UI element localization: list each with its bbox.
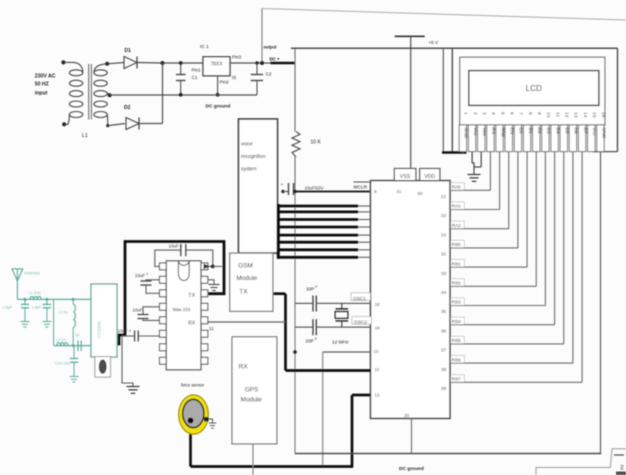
- svg-text:9: 9: [536, 112, 542, 115]
- svg-text:CC2500: CC2500: [97, 321, 102, 338]
- svg-text:RB0: RB0: [452, 242, 461, 247]
- svg-text:RA2: RA2: [452, 223, 461, 228]
- svg-text:10uF +: 10uF +: [169, 244, 183, 249]
- svg-text:L1 2nH: L1 2nH: [29, 291, 42, 295]
- svg-text:33P: 33P: [306, 287, 314, 292]
- svg-text:12 MHz: 12 MHz: [332, 340, 349, 346]
- svg-text:33P: 33P: [306, 339, 314, 344]
- svg-text:Max 232: Max 232: [173, 307, 191, 312]
- svg-text:RB1: RB1: [452, 261, 461, 266]
- svg-text:34: 34: [441, 290, 447, 296]
- svg-text:14: 14: [582, 112, 588, 118]
- svg-text:VDD: VDD: [424, 174, 435, 180]
- svg-text:32: 32: [441, 252, 447, 258]
- svg-text:8: 8: [527, 112, 533, 115]
- svg-text:10uF +: 10uF +: [118, 329, 132, 334]
- svg-text:7: 7: [518, 112, 524, 115]
- svg-text:22: 22: [441, 213, 447, 219]
- svg-text:RA1: RA1: [452, 204, 461, 209]
- svg-text:D3: D3: [545, 128, 551, 135]
- svg-text:LCD: LCD: [526, 84, 542, 93]
- svg-text:D6: D6: [573, 128, 579, 135]
- svg-text:1: 1: [463, 112, 469, 115]
- svg-text:D0: D0: [518, 128, 524, 135]
- svg-text:18: 18: [375, 302, 380, 307]
- svg-text:10: 10: [545, 112, 551, 118]
- svg-text:D2: D2: [124, 105, 131, 111]
- svg-text:Pin1: Pin1: [192, 68, 202, 73]
- svg-text:37: 37: [441, 348, 447, 354]
- svg-text:38: 38: [441, 367, 447, 373]
- svg-text:10: 10: [373, 349, 378, 354]
- svg-text:10uF: 10uF: [133, 307, 143, 312]
- svg-text:force sensor: force sensor: [181, 383, 205, 388]
- svg-text:13: 13: [573, 112, 579, 118]
- svg-text:EN: EN: [509, 128, 515, 135]
- svg-text:D1: D1: [527, 128, 533, 135]
- svg-text:+5 V: +5 V: [429, 40, 440, 45]
- svg-text:MCLR: MCLR: [354, 184, 368, 190]
- svg-text:Vcc: Vcc: [591, 128, 597, 137]
- svg-text:50 HZ: 50 HZ: [35, 81, 50, 87]
- svg-text:Module: Module: [236, 275, 257, 282]
- svg-text:OSC1: OSC1: [353, 296, 366, 302]
- svg-text:+: +: [281, 182, 284, 187]
- svg-text:12: 12: [374, 392, 380, 397]
- svg-text:system: system: [241, 167, 257, 173]
- svg-text:D5: D5: [564, 128, 570, 135]
- svg-text:Pin3: Pin3: [232, 55, 242, 60]
- svg-text:33: 33: [441, 271, 447, 277]
- svg-text:DC ground: DC ground: [399, 466, 424, 472]
- svg-text:output: output: [264, 45, 278, 50]
- svg-text:Module: Module: [241, 397, 262, 404]
- svg-text:21: 21: [441, 194, 447, 200]
- svg-text:C1: C1: [192, 75, 198, 80]
- svg-text:RX: RX: [239, 364, 249, 371]
- svg-text:0): 0): [232, 75, 237, 80]
- svg-text:19: 19: [375, 326, 380, 331]
- svg-text:40: 40: [417, 191, 423, 197]
- svg-text:RX: RX: [188, 321, 196, 327]
- svg-text:39: 39: [441, 386, 447, 392]
- svg-text:RB4: RB4: [452, 319, 461, 324]
- svg-text:L2 5n: L2 5n: [59, 311, 69, 315]
- svg-text:TX: TX: [239, 289, 248, 296]
- svg-text:3: 3: [481, 112, 487, 115]
- svg-text:1.5pF: 1.5pF: [3, 306, 13, 310]
- svg-text:recognition: recognition: [241, 154, 266, 160]
- svg-text:9: 9: [374, 189, 377, 195]
- svg-text:D1: D1: [125, 48, 132, 54]
- svg-text:12: 12: [563, 112, 569, 118]
- svg-text:23: 23: [441, 232, 447, 238]
- svg-text:RB6: RB6: [452, 357, 461, 362]
- svg-text:Antenna: Antenna: [24, 271, 40, 276]
- svg-text:RB7: RB7: [452, 377, 461, 382]
- svg-text:1p: 1p: [75, 333, 79, 337]
- svg-text:TX: TX: [188, 293, 195, 299]
- svg-text:5: 5: [499, 112, 505, 115]
- svg-text:IC 1: IC 1: [200, 44, 209, 50]
- svg-text:GND: GND: [463, 128, 469, 139]
- svg-text:+: +: [146, 272, 149, 277]
- svg-text:1.8pF: 1.8pF: [32, 306, 42, 310]
- svg-text:DC ground: DC ground: [206, 104, 231, 110]
- svg-text:9V: 9V: [620, 464, 625, 470]
- svg-text:L3 1n: L3 1n: [56, 338, 66, 342]
- svg-text:R/W: R/W: [499, 128, 505, 138]
- svg-text:Vee: Vee: [481, 128, 487, 137]
- svg-text:36: 36: [441, 328, 447, 334]
- svg-text:10uF/63V: 10uF/63V: [305, 185, 324, 190]
- svg-text:20: 20: [404, 413, 410, 419]
- svg-text:D7: D7: [582, 128, 588, 135]
- svg-text:RA0: RA0: [452, 185, 461, 190]
- svg-text:11: 11: [554, 112, 560, 117]
- svg-text:GSM: GSM: [238, 263, 253, 270]
- svg-text:GPS: GPS: [245, 387, 258, 394]
- svg-text:D4: D4: [554, 128, 560, 135]
- svg-text:11: 11: [374, 367, 379, 372]
- svg-text:RB2: RB2: [452, 281, 461, 286]
- svg-text:10uF: 10uF: [135, 273, 145, 278]
- svg-text:VSS: VSS: [400, 174, 411, 180]
- svg-text:16: 16: [600, 112, 606, 118]
- svg-text:RS: RS: [490, 128, 496, 136]
- svg-text:Pin2: Pin2: [220, 79, 230, 84]
- svg-text:35: 35: [441, 309, 447, 315]
- svg-text:voice: voice: [241, 142, 253, 148]
- svg-text:C15 10p: C15 10p: [55, 362, 69, 366]
- svg-text:78XX: 78XX: [210, 61, 223, 67]
- svg-text:RB5: RB5: [452, 338, 461, 343]
- svg-text:input: input: [35, 91, 48, 97]
- svg-text:D2: D2: [536, 128, 542, 135]
- svg-text:15: 15: [591, 112, 597, 118]
- svg-text:2: 2: [472, 112, 478, 115]
- svg-text:11: 11: [209, 326, 214, 332]
- svg-text:230V AC: 230V AC: [35, 73, 56, 79]
- svg-text:GND: GND: [600, 128, 606, 139]
- svg-text:6: 6: [508, 112, 514, 115]
- svg-text:OSC2: OSC2: [354, 320, 367, 326]
- svg-text:L1: L1: [82, 133, 88, 139]
- svg-text:DC +: DC +: [270, 57, 281, 62]
- svg-text:10 K: 10 K: [311, 140, 322, 146]
- svg-text:RB3: RB3: [452, 300, 461, 305]
- svg-text:Vcc: Vcc: [472, 128, 478, 137]
- svg-text:C2: C2: [266, 72, 272, 77]
- svg-text:31: 31: [396, 189, 402, 195]
- svg-text:4: 4: [490, 112, 496, 115]
